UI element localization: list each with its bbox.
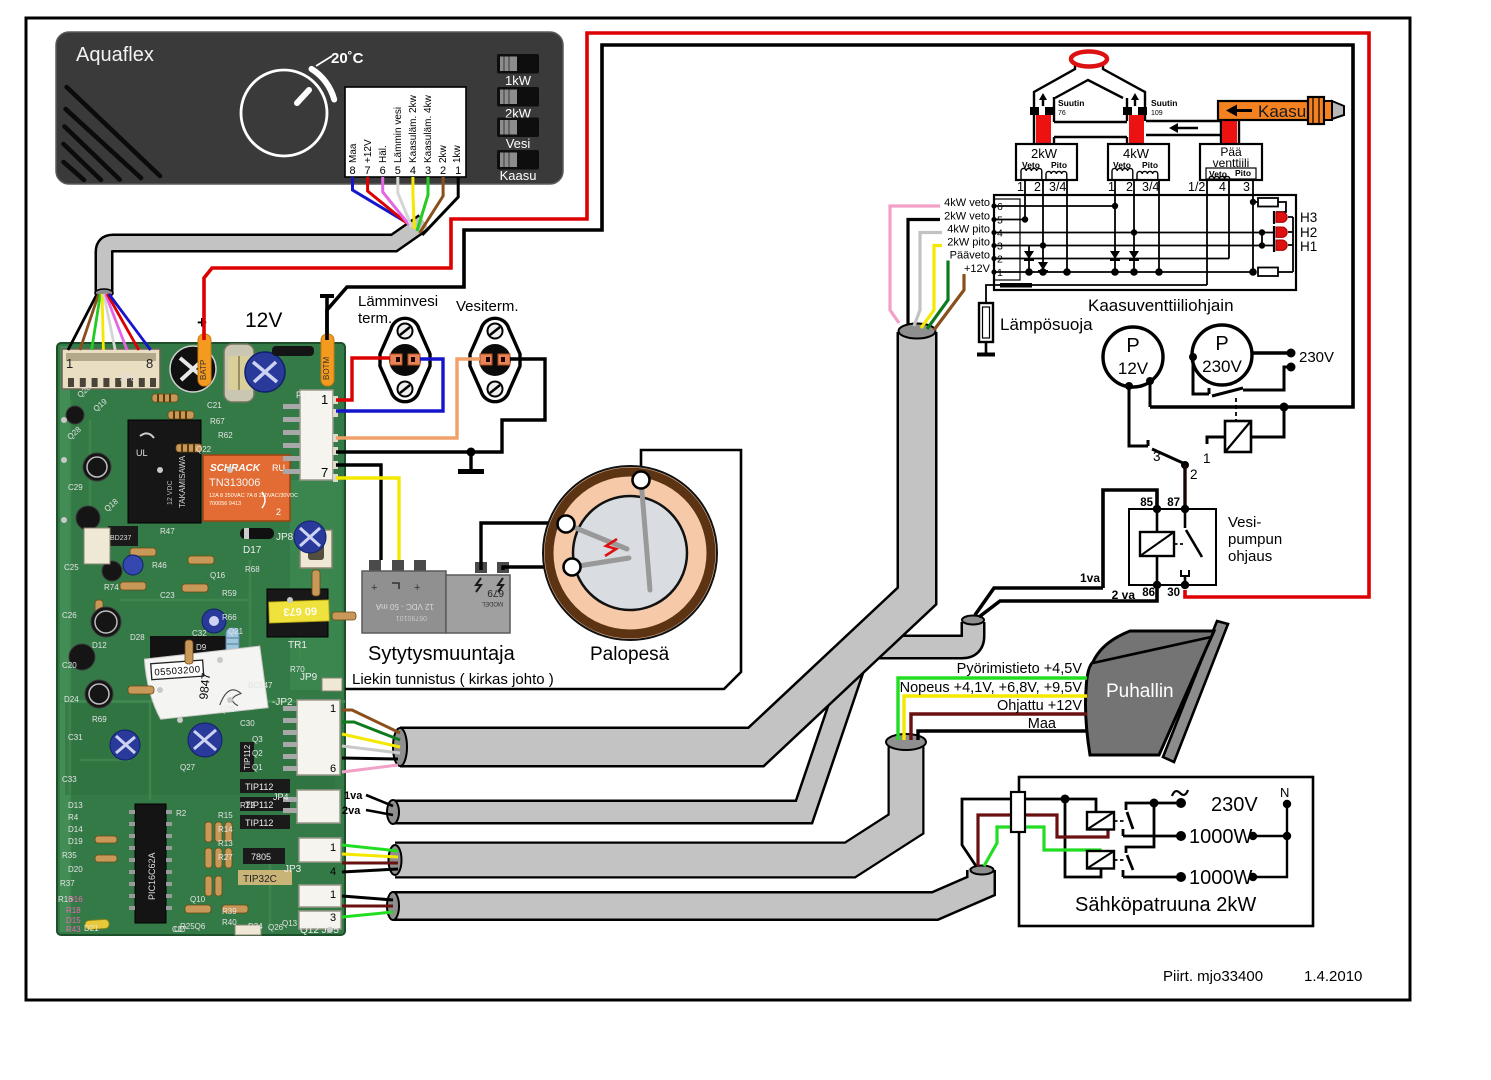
svg-text:2kW: 2kW <box>1031 146 1058 161</box>
svg-text:2: 2 <box>1190 467 1198 482</box>
svg-text:700056 9413: 700056 9413 <box>209 501 241 507</box>
wires cable to JP6 <box>68 294 151 350</box>
thermostat Vesiterm <box>456 298 520 402</box>
svg-text:R35: R35 <box>62 851 77 860</box>
wire red JP1 to thermostat1 <box>336 358 390 400</box>
svg-text:230V: 230V <box>1299 349 1334 366</box>
node on 12V return <box>1280 403 1289 412</box>
terminal 1000W lower <box>1176 872 1186 882</box>
wire white Lammin vesi pin5 <box>398 177 412 227</box>
valve pin labels <box>1017 180 1250 194</box>
svg-text:R2: R2 <box>176 809 187 818</box>
connector label box on panel <box>345 87 466 177</box>
svg-text:Lämpösuoja: Lämpösuoja <box>1000 315 1093 334</box>
valve 4kW <box>1108 144 1169 180</box>
svg-text:Pääveto: Pääveto <box>950 250 990 262</box>
electrode flame rod <box>641 480 650 590</box>
svg-text:2: 2 <box>276 507 281 517</box>
svg-text:R66: R66 <box>222 613 237 622</box>
pin stub verticals Paa <box>1207 180 1253 285</box>
svg-text:P: P <box>1126 335 1139 357</box>
pin stub verticals 4kW <box>1114 180 1116 206</box>
svg-text:Kaasuläm. 2kw: Kaasuläm. 2kw <box>408 94 419 163</box>
resistor field <box>95 394 356 913</box>
svg-text:12 VDC - 50 mA: 12 VDC - 50 mA <box>375 602 434 611</box>
svg-text:1: 1 <box>330 703 336 715</box>
wire green Paaveto <box>927 259 994 330</box>
electrode hole 2 <box>564 559 581 576</box>
ground chassis <box>458 452 484 472</box>
svg-text:2: 2 <box>1126 180 1133 194</box>
svg-text:UL: UL <box>136 448 148 458</box>
svg-text:TR1: TR1 <box>288 640 307 651</box>
svg-text:R25Q6: R25Q6 <box>180 922 206 931</box>
relay K4 coil <box>1087 851 1125 869</box>
svg-text:Kaasuläm. 4kw: Kaasuläm. 4kw <box>423 94 434 163</box>
svg-text:4kW: 4kW <box>1123 146 1150 161</box>
svg-text:BATP: BATP <box>199 360 208 380</box>
svg-text:R46: R46 <box>152 561 167 570</box>
wire black fan Maa <box>918 731 1087 740</box>
svg-text:R67: R67 <box>210 417 225 426</box>
svg-text:Vesi: Vesi <box>506 136 531 151</box>
svg-text:R15: R15 <box>218 811 233 820</box>
LED H2 <box>1272 226 1287 239</box>
selector arm <box>1152 449 1183 463</box>
svg-text:Q1: Q1 <box>252 763 263 772</box>
white component 1J796 <box>84 528 110 564</box>
electrode 2 <box>572 558 629 567</box>
capacitor C32 blue <box>202 609 226 633</box>
HV wire 1 <box>481 523 558 570</box>
svg-text:3/4: 3/4 <box>1049 180 1066 194</box>
svg-text:Suutin: Suutin <box>1151 98 1177 108</box>
wire green fan speed signal <box>898 678 1087 740</box>
svg-text:Q26: Q26 <box>268 923 284 932</box>
svg-text:Q2: Q2 <box>252 749 263 758</box>
svg-text:3: 3 <box>425 165 431 177</box>
panel vent stripes <box>64 87 161 180</box>
capacitor C21 electrolytic <box>170 346 216 392</box>
arrow gas flow left <box>1169 123 1198 133</box>
terminal 85 <box>1153 505 1161 513</box>
switch arm 230V pump <box>1212 388 1243 396</box>
electrode hole top <box>633 472 650 489</box>
svg-text:1: 1 <box>1203 451 1211 466</box>
svg-text:Suutin: Suutin <box>1058 98 1084 108</box>
valve Paa venttiili <box>1200 144 1262 180</box>
svg-text:D21: D21 <box>84 924 99 933</box>
wire black 2kW veto <box>908 220 994 325</box>
svg-text:2 va: 2 va <box>1112 588 1136 602</box>
svg-text:1kw: 1kw <box>452 144 463 163</box>
svg-text:+12V: +12V <box>964 263 991 275</box>
svg-text:87: 87 <box>1167 497 1180 509</box>
svg-text:3: 3 <box>997 241 1003 253</box>
svg-text:Piirt. mjo33400: Piirt. mjo33400 <box>1163 968 1263 985</box>
svg-text:Q10: Q10 <box>190 895 206 904</box>
switch 1kW <box>497 54 539 88</box>
svg-text:86: 86 <box>1142 587 1155 599</box>
wire black JP1 to transformer <box>336 465 381 560</box>
rail numbers <box>997 201 1003 279</box>
wire P12V to selector <box>1129 381 1150 446</box>
junction dots rails <box>991 199 1265 276</box>
svg-text:P1: P1 <box>296 390 307 400</box>
svg-text:H2: H2 <box>1300 225 1317 240</box>
svg-text:Q29: Q29 <box>220 705 236 714</box>
svg-text:Maa: Maa <box>348 143 359 163</box>
svg-text:C25: C25 <box>64 563 79 572</box>
svg-text:2va: 2va <box>342 805 361 817</box>
relay K2 TAKAMISAWA black <box>128 420 201 523</box>
svg-text:12V: 12V <box>1118 359 1149 378</box>
svg-text:1kW: 1kW <box>505 73 532 88</box>
svg-text:Aquaflex: Aquaflex <box>76 44 154 66</box>
wire yellow 2kW pito <box>921 246 994 329</box>
connector JP5 <box>299 885 341 936</box>
fan wire labels <box>900 661 1084 732</box>
svg-text:R40: R40 <box>222 918 237 927</box>
caps blue <box>110 521 326 760</box>
IC 7805 <box>243 848 285 864</box>
svg-text:12 VDC: 12 VDC <box>167 480 174 505</box>
svg-text:Sähköpatruuna 2kW: Sähköpatruuna 2kW <box>1075 894 1256 916</box>
IC TIP32C <box>238 870 292 885</box>
transistor BD237 <box>108 526 138 546</box>
svg-text:12A 8 250VAC 7A 8 250VAC/30VD: 12A 8 250VAC 7A 8 250VAC/30VDC <box>209 493 298 499</box>
svg-text:JP8: JP8 <box>276 532 294 543</box>
svg-text:Q13: Q13 <box>282 919 298 928</box>
svg-text:PIC16C62A: PIC16C62A <box>147 852 157 900</box>
svg-text:1000W: 1000W <box>1189 826 1252 848</box>
svg-text:20˚C: 20˚C <box>331 50 364 67</box>
svg-text:R62: R62 <box>218 431 233 440</box>
svg-text:D20: D20 <box>68 865 83 874</box>
wires JP5 into cable D <box>342 896 393 917</box>
heater box Sahkopatruuna <box>1019 777 1313 926</box>
svg-text:TN313006: TN313006 <box>209 477 260 489</box>
ignition transformer Sytytysmuuntaja <box>362 560 510 633</box>
switch Kaasu <box>497 150 539 183</box>
svg-text:4kW veto: 4kW veto <box>944 197 990 209</box>
svg-text:R27: R27 <box>218 853 233 862</box>
svg-text:2kW pito: 2kW pito <box>947 237 990 249</box>
IC TIP112 group <box>240 779 290 829</box>
connector JP1 <box>283 390 338 482</box>
thermal fuse Lampousuoja <box>977 303 1093 355</box>
svg-text:C21: C21 <box>207 401 222 410</box>
svg-text:P: P <box>1215 333 1228 355</box>
svg-text:06790101: 06790101 <box>396 614 427 621</box>
svg-text:1: 1 <box>997 267 1003 279</box>
terminal 230V <box>1176 798 1186 808</box>
svg-text:1: 1 <box>321 392 328 407</box>
svg-text:2: 2 <box>997 254 1003 266</box>
svg-text:C20: C20 <box>62 661 77 670</box>
svg-text:H1: H1 <box>1300 239 1317 254</box>
led return wiring <box>1262 217 1293 272</box>
relay contact dashed <box>1235 398 1237 421</box>
driver board Kaasuventtiiliohjain box <box>994 195 1296 290</box>
svg-text:1: 1 <box>1017 180 1024 194</box>
wire blue thermostat1 to JP1 <box>336 359 443 411</box>
flame sensing wire Liekin tunnistus <box>345 450 741 689</box>
svg-text:85: 85 <box>1140 497 1153 509</box>
transformer TR1 <box>267 589 329 651</box>
svg-text:+: + <box>371 582 377 594</box>
svg-text:2: 2 <box>1034 180 1041 194</box>
terminal 87 <box>1181 505 1189 513</box>
svg-text:+: + <box>414 582 420 594</box>
gas inlet pipe Kaasu <box>1218 97 1344 124</box>
rail 4 <box>994 232 1272 234</box>
wires JP3 into cable C <box>342 845 398 872</box>
svg-text:C33: C33 <box>62 775 77 784</box>
svg-text:1: 1 <box>455 165 461 177</box>
knob 20C thermostat <box>241 50 364 156</box>
svg-text:D15: D15 <box>66 916 81 925</box>
svg-text:Sytytysmuuntaja: Sytytysmuuntaja <box>368 643 516 665</box>
svg-text:R70: R70 <box>290 665 305 674</box>
svg-text:TAKAMISAWA: TAKAMISAWA <box>178 455 187 508</box>
svg-text:4: 4 <box>997 228 1003 240</box>
svg-text:-JP2: -JP2 <box>272 697 293 708</box>
nozzle blocks 2kW <box>1030 107 1039 115</box>
terminal + BATP orange <box>197 313 211 386</box>
svg-text:Q16: Q16 <box>210 571 226 580</box>
svg-text:12V: 12V <box>245 309 282 332</box>
svg-text:7805: 7805 <box>251 852 271 862</box>
svg-text:Q12 JP5: Q12 JP5 <box>300 925 339 936</box>
svg-text:N: N <box>1280 785 1289 800</box>
svg-text:Vesiterm.: Vesiterm. <box>456 298 519 315</box>
wire node2 to 87 <box>1183 465 1186 509</box>
sticker label 05503200 <box>144 646 268 720</box>
wire dark red heater relay1 <box>978 815 1108 866</box>
svg-text:Kaasuventtiiliohjain: Kaasuventtiiliohjain <box>1088 296 1234 315</box>
svg-text:5: 5 <box>395 165 401 177</box>
control panel Aquaflex <box>56 32 563 184</box>
IC TIP112 mid <box>240 742 254 772</box>
IC U2 PIC16C62A <box>129 804 172 923</box>
burner ring top <box>1071 52 1107 67</box>
wire yellow fan speed <box>904 696 1087 740</box>
terminal 86 <box>1153 581 1161 589</box>
wire green heater relay2 <box>984 827 1100 866</box>
svg-text:R18: R18 <box>66 906 81 915</box>
svg-text:Pito: Pito <box>1142 160 1158 170</box>
svg-text:4: 4 <box>1219 180 1226 194</box>
connector JP6 8-pin <box>62 349 160 389</box>
nozzle blocks 4kW <box>1123 107 1132 115</box>
wires JP2 into cable A <box>342 710 400 772</box>
svg-text:9847: 9847 <box>196 672 213 700</box>
svg-text:Kaasu: Kaasu <box>500 168 537 183</box>
svg-text:7: 7 <box>365 165 371 177</box>
resistor R51 blue body <box>226 628 239 662</box>
svg-text:D19: D19 <box>68 837 83 846</box>
rail 5 <box>994 219 1025 221</box>
rail 6 <box>994 205 1115 207</box>
svg-text:R68: R68 <box>245 565 260 574</box>
relay coil pump <box>1203 407 1284 466</box>
svg-text:Häl.: Häl. <box>378 145 389 163</box>
wire red +12V pin7 <box>368 177 407 223</box>
svg-text:1: 1 <box>330 889 336 901</box>
svg-text:R69: R69 <box>92 715 107 724</box>
fan Puhallin <box>1086 621 1229 762</box>
svg-text:3: 3 <box>1153 449 1161 464</box>
yellow cap <box>89 954 91 956</box>
svg-text:Puhallin: Puhallin <box>1106 681 1174 702</box>
svg-text:3: 3 <box>330 912 336 924</box>
svg-text:Nopeus +4,1V, +6,8V, +9,5V: Nopeus +4,1V, +6,8V, +9,5V <box>900 680 1083 696</box>
wire yellow pin4 <box>413 177 415 229</box>
fuse glass F1 <box>224 344 254 402</box>
small caps dark <box>66 406 122 708</box>
svg-text:SCHRACK: SCHRACK <box>210 463 261 474</box>
svg-text:+12V: +12V <box>363 139 374 163</box>
svg-text:R39: R39 <box>222 907 237 916</box>
svg-text:Q3: Q3 <box>252 735 263 744</box>
svg-text:term.: term. <box>358 310 392 327</box>
burner Palopesa <box>543 466 717 640</box>
arrow up 4kW <box>1131 93 1139 106</box>
wire blue Maa pin8 <box>353 177 405 221</box>
wire brown pin2 <box>420 177 444 233</box>
diode D2 <box>1038 246 1048 272</box>
svg-text:76: 76 <box>1058 110 1066 117</box>
wire 1va <box>975 490 1157 615</box>
svg-text:BOTM: BOTM <box>322 357 331 380</box>
wire green pin3 <box>417 177 428 231</box>
svg-text:1: 1 <box>330 842 336 854</box>
LED H1 <box>1272 239 1287 252</box>
relay box Vesi-pumpun ohjaus <box>1129 509 1216 585</box>
svg-text:H3: H3 <box>1300 210 1317 225</box>
svg-text:Liekin tunnistus ( kirkas joht: Liekin tunnistus ( kirkas johto ) <box>352 671 554 688</box>
LED H3 <box>1274 211 1287 224</box>
svg-text:JP6: JP6 <box>120 373 136 383</box>
svg-text:1/2: 1/2 <box>1188 180 1205 194</box>
svg-text:Lämmin vesi: Lämmin vesi <box>393 107 404 163</box>
connector JP4 <box>273 790 340 823</box>
svg-text:TIP112: TIP112 <box>245 782 273 792</box>
cable A to gas valves <box>393 324 936 767</box>
svg-text:7: 7 <box>321 465 328 480</box>
connector JP8 <box>276 530 332 568</box>
terminal - BOTM orange <box>320 294 334 386</box>
switch K3 contact <box>1123 803 1181 836</box>
svg-text:D16: D16 <box>68 895 83 904</box>
svg-text:C26: C26 <box>62 611 77 620</box>
svg-text:Maa: Maa <box>1028 716 1057 732</box>
svg-text:C32: C32 <box>192 629 207 638</box>
node junction <box>467 448 476 457</box>
wire black 230V feed <box>962 799 1065 866</box>
burner manifold <box>1034 65 1239 144</box>
svg-text:BD237: BD237 <box>110 535 132 542</box>
rail 2 <box>994 258 1229 260</box>
svg-text:1va: 1va <box>1080 571 1100 585</box>
svg-text:4kW pito: 4kW pito <box>947 224 990 236</box>
svg-text:2: 2 <box>440 165 446 177</box>
svg-text:D28: D28 <box>130 633 145 642</box>
svg-text:1: 1 <box>1108 180 1115 194</box>
wire labels <box>940 196 992 275</box>
svg-text:1000W: 1000W <box>1189 867 1252 889</box>
svg-text:D24: D24 <box>64 695 79 704</box>
resistor R led top <box>1253 198 1286 212</box>
svg-text:pumpun: pumpun <box>1228 531 1282 548</box>
HV wire 2 <box>503 567 563 570</box>
red gas pipe main <box>1222 118 1237 144</box>
wire red +12V supply <box>204 33 1369 597</box>
wire black 12V return <box>327 45 1353 407</box>
bottom internal rail <box>986 285 1207 303</box>
svg-text:Pito: Pito <box>1235 168 1251 178</box>
svg-text:6: 6 <box>380 165 386 177</box>
red gas pipe 4kW <box>1129 115 1144 144</box>
switch Vesi <box>497 118 539 152</box>
svg-text:60 673: 60 673 <box>283 604 317 617</box>
svg-text:Pito: Pito <box>1051 160 1067 170</box>
pcb board <box>57 343 345 935</box>
wire black thermostat2 return <box>336 359 545 452</box>
electrode 1 <box>566 524 627 549</box>
pin stub verticals 2kW <box>1024 180 1026 220</box>
svg-text:D34: D34 <box>248 922 263 931</box>
rail 3 <box>994 245 1272 247</box>
electrode hole 1 <box>558 516 575 533</box>
cable D to heater <box>387 866 994 921</box>
relay K1 SCHRACK TN313006 <box>203 455 298 521</box>
diode D3 <box>1110 206 1120 272</box>
svg-text:230V: 230V <box>1202 357 1242 376</box>
svg-text:Palopesä: Palopesä <box>590 644 670 665</box>
diode D17 <box>240 528 274 556</box>
svg-text:8: 8 <box>349 165 355 177</box>
wire orange JP1 to thermostat2 <box>336 359 480 438</box>
wire pink 4kW veto <box>890 206 994 323</box>
svg-text:6: 6 <box>997 201 1003 213</box>
relay K5 black under sticker <box>150 636 230 678</box>
svg-text:Vesi-: Vesi- <box>1228 514 1261 531</box>
svg-text:3: 3 <box>1243 180 1250 194</box>
diode D4 <box>1129 232 1139 272</box>
connector JP9 <box>300 672 342 691</box>
svg-text:230V: 230V <box>1211 794 1258 816</box>
silkscreen texts <box>58 383 305 934</box>
svg-text:D12: D12 <box>92 641 107 650</box>
terminal 30 <box>1181 581 1189 589</box>
solder pads <box>61 417 333 933</box>
wire brown +12V valve <box>934 272 994 330</box>
fuse F2 <box>1011 792 1025 832</box>
wire yellow JP1 to transformer <box>336 478 399 560</box>
wire P230V to mains <box>1251 351 1291 354</box>
svg-text:109: 109 <box>1151 110 1163 117</box>
svg-text:1va: 1va <box>344 790 363 802</box>
svg-text:Q27: Q27 <box>180 763 196 772</box>
thermostat Lamminvesi term <box>358 293 438 402</box>
svg-text:R13: R13 <box>218 839 233 848</box>
valve 2kW <box>1016 144 1077 180</box>
svg-text:TIP32C: TIP32C <box>243 874 277 885</box>
relay K3 coil <box>1087 812 1125 830</box>
svg-text:6: 6 <box>330 763 336 775</box>
